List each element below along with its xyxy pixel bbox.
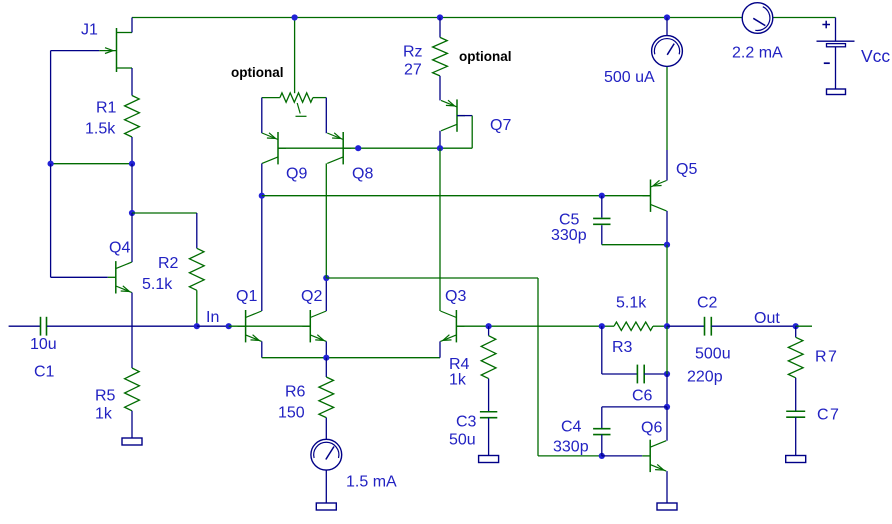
wire Q6 collector up (666, 407, 668, 441)
wire C6 left lead (602, 373, 638, 375)
ground under R5 (122, 438, 142, 445)
svg-text:C1: C1 (34, 364, 55, 381)
svg-text:330p: 330p (551, 227, 587, 244)
svg-text:J1: J1 (81, 22, 98, 39)
svg-text:500u: 500u (695, 346, 731, 363)
svg-text:Q4: Q4 (109, 240, 130, 257)
wire Q5col to C2 (667, 325, 704, 327)
wire Q7 to Q3 collector (439, 148, 441, 311)
label R4 (449, 356, 470, 373)
wire pot left lead (262, 97, 280, 99)
node In (194, 323, 200, 329)
wire rail to 500uA (666, 18, 668, 36)
wire C4 top lead (601, 407, 603, 429)
wire right column C6 to C4 (666, 374, 668, 407)
wire Q4 emitter down (131, 293, 133, 369)
wire VAS to Q6 row (538, 455, 602, 457)
wire row y163 (51, 163, 132, 165)
svg-text:Q6: Q6 (641, 420, 662, 437)
svg-text:R7: R7 (815, 349, 838, 366)
transistor Q3 (440, 310, 464, 342)
label Q4 (109, 240, 130, 257)
resistor R5 (125, 368, 140, 411)
capacitor C3 (480, 412, 497, 418)
wire Q2 collector up (325, 278, 327, 311)
wire Q3 emitter riser (439, 341, 441, 357)
label 330p (C5) (551, 227, 587, 244)
wire Q2 emitter down (325, 341, 327, 357)
label 500u (695, 346, 731, 363)
node Q9 collector (259, 193, 265, 199)
svg-text:C3: C3 (456, 414, 477, 431)
svg-text:R4: R4 (449, 356, 470, 373)
label Q5 (676, 161, 697, 178)
wire J1 source to R1 (131, 68, 133, 96)
svg-text:optional: optional (231, 65, 284, 80)
label C2 (697, 295, 718, 312)
svg-text:C7: C7 (817, 407, 840, 424)
label C6 (632, 388, 653, 405)
node C5 top (599, 193, 605, 199)
transistor Q8 (327, 132, 351, 164)
wire Q6 emitter down (666, 471, 668, 503)
wire to Q6 base (602, 455, 642, 457)
wire Rz to Q7 (439, 76, 441, 101)
svg-text:R3: R3 (612, 339, 633, 356)
ground under 1.5mA source (316, 503, 336, 510)
svg-text:C2: C2 (697, 295, 718, 312)
svg-text:Q8: Q8 (352, 166, 373, 183)
node rail 500uA (664, 14, 670, 20)
capacitor C7 (786, 411, 805, 417)
wire VAS row (326, 277, 538, 279)
svg-text:1k: 1k (449, 372, 467, 389)
label 10u (30, 336, 57, 353)
node base bus (355, 145, 361, 151)
label Q8 (352, 166, 373, 183)
resistor R2 (189, 248, 204, 290)
svg-text:In: In (206, 309, 219, 326)
wire R1 to node (131, 137, 133, 164)
label Q1 (236, 288, 257, 305)
transistor Q7 (441, 99, 465, 131)
label Q2 (301, 288, 322, 305)
wire source to ground (325, 470, 327, 503)
wire R7 to C7 (795, 378, 797, 411)
node R3 right (664, 323, 670, 329)
ammeter 2.2mA (742, 3, 773, 34)
wire Q7 base right (457, 115, 472, 117)
svg-text:R6: R6 (285, 384, 306, 401)
wire C3 to ground (488, 418, 490, 456)
label 1.5 mA (346, 474, 397, 491)
node C6 right (664, 371, 670, 377)
svg-text:Out: Out (754, 310, 780, 327)
node rail-Rz (437, 14, 443, 20)
resistor R7 (788, 337, 803, 378)
resistor Rz (433, 37, 448, 76)
label Rz (403, 44, 423, 61)
wire C6 left drop (601, 326, 603, 374)
label R6 (285, 384, 306, 401)
wire top VCC rail left (132, 17, 742, 19)
node emitters (323, 355, 329, 361)
label 1k (R5) (95, 406, 113, 423)
wire left column upper (50, 51, 52, 164)
svg-text:optional: optional (459, 49, 512, 64)
svg-text:1.5k: 1.5k (85, 121, 116, 138)
label 330p (C4) (553, 439, 589, 456)
wire Q4 collector (131, 213, 133, 262)
svg-text:Vcc: Vcc (861, 46, 890, 66)
svg-text:C6: C6 (632, 388, 653, 405)
wire C2 to Out (711, 325, 795, 327)
wire rail to pot wiper (294, 18, 296, 94)
label 1.5k (85, 121, 116, 138)
svg-text:Rz: Rz (403, 44, 423, 61)
wire C7 to ground (795, 417, 797, 455)
svg-text:Q3: Q3 (445, 288, 466, 305)
wire C1 to In node (47, 325, 197, 327)
svg-text:2.2 mA: 2.2 mA (732, 45, 783, 62)
label 27 (404, 62, 422, 79)
node Out (793, 323, 799, 329)
label J1 (81, 22, 98, 39)
label 5.1k (R3) (616, 295, 647, 312)
label 220p (687, 369, 723, 386)
node at 50,163 (48, 161, 54, 167)
node C4 bottom (599, 453, 605, 459)
node C4 right (664, 404, 670, 410)
transistor Q2 (302, 310, 326, 342)
wire C6 right lead (644, 373, 667, 375)
label Q9 (286, 166, 307, 183)
transistor Q9 (262, 132, 286, 164)
svg-text:C4: C4 (561, 419, 582, 436)
resistor R1 (125, 96, 140, 138)
svg-text:Q9: Q9 (286, 166, 307, 183)
wire mirror row (262, 195, 651, 197)
wire R2 top lead (196, 213, 198, 248)
ground under battery (827, 89, 846, 95)
node at 132,163 (129, 161, 135, 167)
label Q3 (445, 288, 466, 305)
label Q7 (490, 117, 511, 134)
capacitor C2 (705, 317, 712, 336)
wire top VCC rail right of ammeter (773, 17, 836, 19)
label C4 (561, 419, 582, 436)
wire R3 right lead (653, 325, 667, 327)
wire input left (9, 325, 41, 327)
wire Q1 collector up (261, 196, 263, 311)
wire In to node2 (197, 325, 229, 327)
wire pot left drop (261, 98, 263, 134)
svg-text:500 uA: 500 uA (604, 69, 655, 86)
svg-text:Q1: Q1 (236, 288, 257, 305)
svg-text:50u: 50u (449, 432, 476, 449)
label optional left (231, 65, 284, 80)
svg-text:330p: 330p (553, 439, 589, 456)
svg-text:150: 150 (278, 405, 305, 422)
transistor Q6 (642, 440, 666, 472)
label Q6 (641, 420, 662, 437)
label 2.2 mA (732, 45, 783, 62)
label R2 (158, 255, 179, 272)
ground under C3 (479, 456, 499, 463)
wire Q5 collector down (666, 211, 668, 245)
wire Q7 base drop (471, 116, 473, 149)
wire to Q4 base (51, 276, 108, 278)
wire pot right lead (313, 97, 326, 99)
wire bus to Q7 (440, 147, 472, 149)
wire Q5 emitter up (666, 150, 668, 181)
wire emitter bus (262, 357, 440, 359)
label R1 (96, 100, 117, 117)
svg-text:220p: 220p (687, 369, 723, 386)
wire R6 top lead (325, 358, 327, 377)
svg-text:R1: R1 (96, 100, 117, 117)
transistor Q5 (643, 180, 667, 212)
potentiometer (optional) (280, 93, 313, 116)
svg-text:10u: 10u (30, 336, 57, 353)
label 150 (278, 405, 305, 422)
label C3 (456, 414, 477, 431)
node at 228,326 (226, 323, 232, 329)
node at 132,213 (129, 210, 135, 216)
node rail-pot (292, 14, 298, 20)
transistor J1 (JFET) (99, 28, 132, 72)
label C1 (34, 364, 55, 381)
wire J1 gate (51, 50, 100, 52)
label C7 (817, 407, 840, 424)
svg-text:Q5: Q5 (676, 161, 697, 178)
svg-text:Q7: Q7 (490, 117, 511, 134)
capacitor C5 (593, 218, 610, 224)
wire C5 to Q5 collector (602, 244, 667, 246)
ground under C7 (786, 456, 806, 463)
wire R3 left lead (602, 325, 614, 327)
label C5 (559, 212, 580, 229)
battery Vcc (817, 21, 855, 89)
transistor Q4 (108, 261, 132, 293)
label In (206, 309, 219, 326)
svg-text:1k: 1k (95, 406, 113, 423)
resistor R4 (481, 336, 496, 379)
label Out (754, 310, 780, 327)
wire C5 top lead (601, 196, 603, 218)
node Q7 (437, 145, 443, 151)
label 5.1k (R2) (142, 276, 173, 293)
wire C4 bottom lead (601, 435, 603, 456)
svg-text:C5: C5 (559, 212, 580, 229)
node Q2 collector (323, 275, 329, 281)
resistor R3 (614, 322, 653, 330)
capacitor C1 (41, 317, 47, 336)
transistor Q1 (238, 310, 262, 342)
svg-text:5.1k: 5.1k (616, 295, 647, 312)
svg-text:1.5 mA: 1.5 mA (346, 474, 397, 491)
node R3 left (599, 323, 605, 329)
wire R4 to C3 (488, 379, 490, 412)
label 500 uA (604, 69, 655, 86)
capacitor C4 (593, 429, 610, 435)
wire pot right drop (325, 98, 327, 134)
wire R6 to source (325, 418, 327, 440)
wire base bus (278, 147, 440, 149)
wire source to Q5 (666, 66, 668, 150)
wire C5 bottom lead (601, 225, 603, 245)
label R5 (95, 388, 116, 405)
wire Rz top lead (439, 18, 441, 38)
wire R7 top lead (795, 326, 797, 337)
wire Q9 collector down (261, 163, 263, 195)
wire battery drop (835, 18, 837, 42)
svg-text:Q2: Q2 (301, 288, 322, 305)
wire 132 col to node 213 (131, 164, 133, 213)
wire VAS drop (537, 278, 539, 456)
label Vcc (861, 46, 890, 66)
capacitor C6 (637, 365, 644, 384)
wire left column lower (50, 164, 52, 278)
label optional right (459, 49, 512, 64)
wire Out stub (796, 325, 812, 327)
ground under Q6 (657, 503, 677, 510)
node Q5 collector (664, 242, 670, 248)
wire Q1 emitter down (261, 341, 263, 357)
wire row y213 (132, 212, 197, 214)
svg-text:5.1k: 5.1k (142, 276, 173, 293)
svg-text:R5: R5 (95, 388, 116, 405)
label R7 (815, 349, 838, 366)
svg-text:27: 27 (404, 62, 422, 79)
label R3 (612, 339, 633, 356)
current source 500uA (652, 36, 683, 67)
wire right column to R3 (666, 245, 668, 327)
wire Q3 base row (456, 325, 601, 327)
wire Q8 collector down (325, 163, 327, 278)
svg-text:R2: R2 (158, 255, 179, 272)
wire C4 top row (602, 406, 667, 408)
wire R4 top lead (488, 326, 490, 336)
label 1k (R4) (449, 372, 467, 389)
wire base row Q1 Q2 (229, 325, 311, 327)
wire Q7 collector (439, 131, 441, 148)
wire R5 to ground (131, 411, 133, 438)
wire J1 drain to rail (131, 18, 133, 33)
label 50u (449, 432, 476, 449)
node R4 top (486, 323, 492, 329)
current source 1.5mA (311, 439, 342, 470)
wire right column R3 to C6 (666, 326, 668, 374)
wire R2 bottom lead (196, 290, 198, 326)
resistor R6 (319, 377, 334, 418)
